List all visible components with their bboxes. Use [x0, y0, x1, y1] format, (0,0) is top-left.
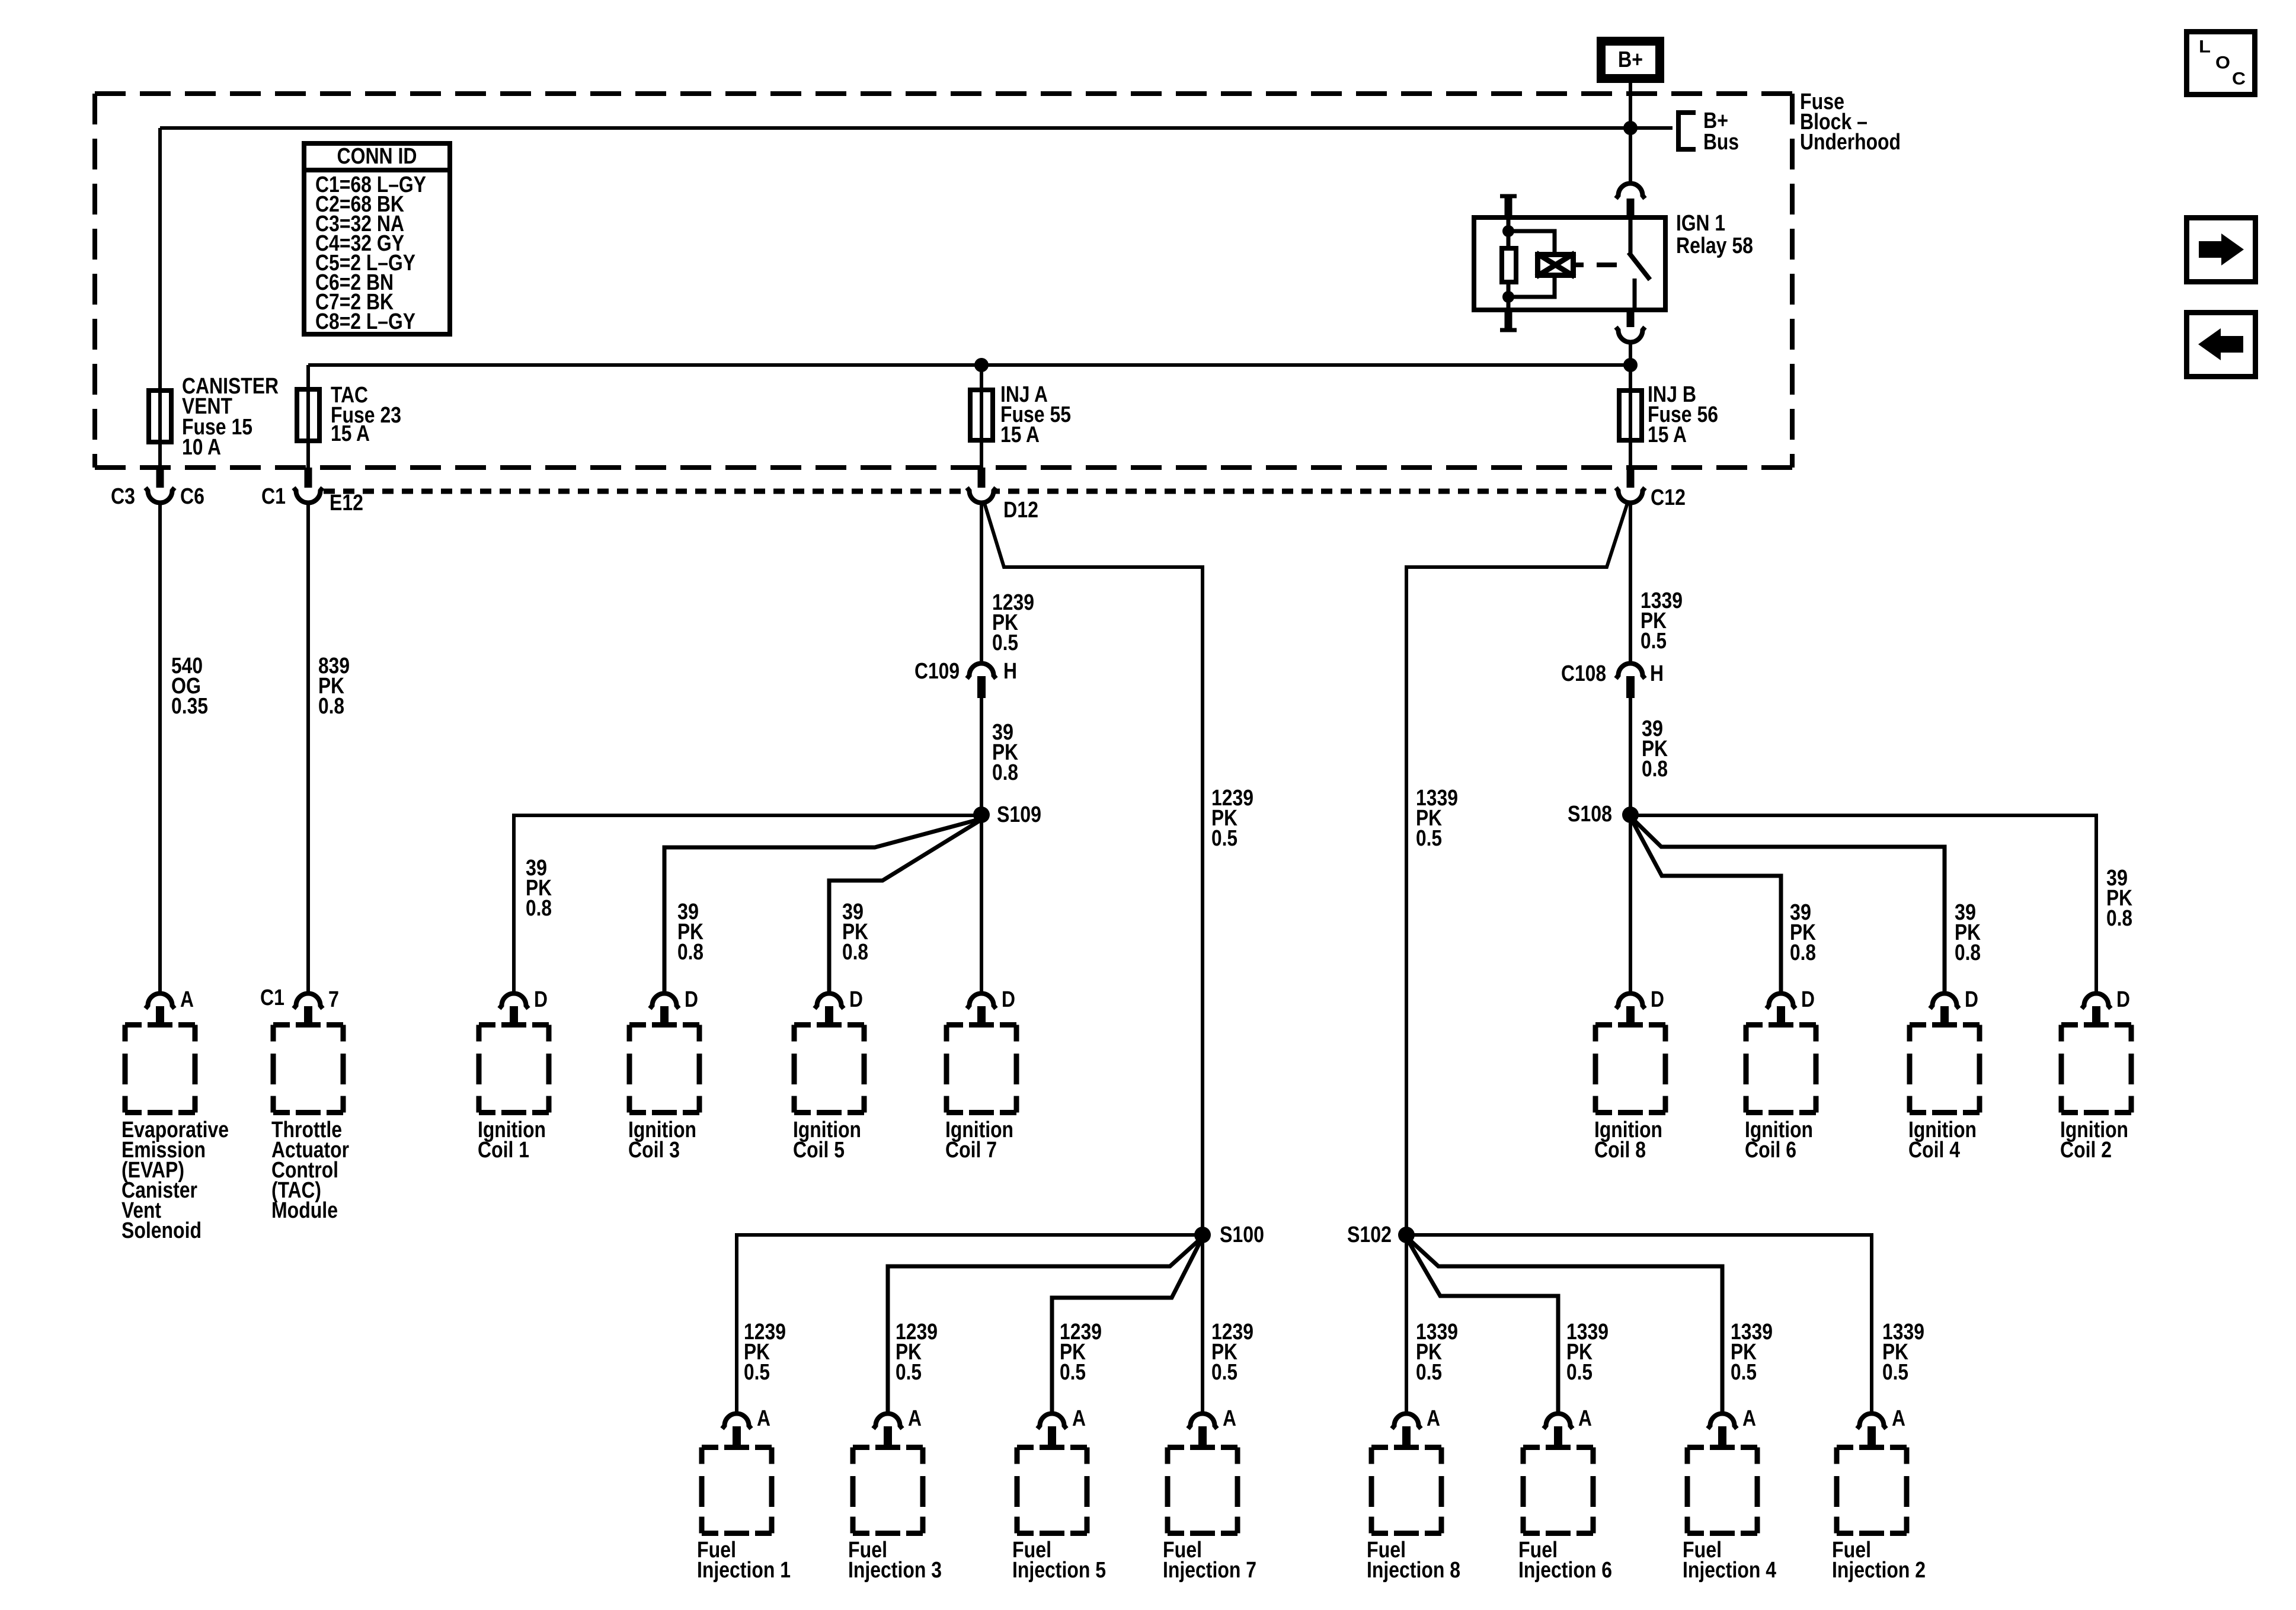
svg-text:Relay 58: Relay 58 — [1676, 233, 1753, 258]
svg-text:Injection 4: Injection 4 — [1683, 1558, 1776, 1583]
connector fuel injector 6 pin A — [1544, 1414, 1573, 1429]
node relay coil bottom junction — [1502, 291, 1514, 303]
svg-text:15 A: 15 A — [1000, 422, 1040, 447]
connector fuel injector 1 pin A — [722, 1414, 752, 1429]
svg-text:0.8: 0.8 — [1955, 940, 1981, 965]
svg-text:15 A: 15 A — [1648, 422, 1687, 447]
svg-text:A: A — [1072, 1406, 1086, 1431]
connector C12 arc — [1616, 488, 1645, 503]
connector ignition coil 3 pin D — [650, 994, 679, 1009]
fuse F55 INJ A — [970, 390, 993, 440]
relay switch blade — [1629, 252, 1650, 280]
node B+ power feed box — [1601, 41, 1660, 79]
connector D12 arc — [967, 488, 996, 503]
component TAC module box — [273, 1025, 343, 1113]
connector fuel injector 7 pin A — [1188, 1414, 1217, 1429]
component Ignition Coil 6 box — [1746, 1025, 1816, 1113]
wire 1239 PK from D12 to C109 — [980, 503, 983, 663]
component Fuel Injection 8 box — [1371, 1448, 1441, 1534]
svg-text:0.8: 0.8 — [677, 940, 703, 965]
svg-text:D: D — [685, 987, 698, 1012]
fuse F56 INJ B — [1619, 391, 1642, 440]
relay pin 87 stub bottom — [1627, 312, 1635, 329]
svg-text:Injection 6: Injection 6 — [1518, 1558, 1612, 1583]
svg-text:D: D — [1965, 987, 1978, 1012]
CONN ID table — [302, 143, 452, 334]
relay box — [1474, 217, 1665, 310]
svg-text:D12: D12 — [1003, 498, 1038, 523]
connector fuel injector 5 pin A — [1038, 1414, 1067, 1429]
svg-text:15 A: 15 A — [331, 421, 370, 446]
fuse F15 CANISTER VENT — [149, 391, 171, 442]
svg-text:0.5: 0.5 — [1566, 1360, 1593, 1385]
relay U IGN 1 Relay 58 — [1474, 196, 1753, 330]
svg-text:0.8: 0.8 — [1790, 940, 1816, 965]
connector ignition coil 4 pin D — [1930, 994, 1959, 1009]
svg-text:A: A — [1427, 1406, 1440, 1431]
svg-text:D: D — [1002, 987, 1015, 1012]
wire 1239 PK branch D12 to S100 — [984, 501, 1203, 1411]
svg-text:Injection 3: Injection 3 — [848, 1558, 942, 1583]
wire B+ bus horizontal — [160, 126, 1673, 130]
node splice S109 — [973, 806, 990, 823]
svg-text:0.8: 0.8 — [1642, 757, 1668, 782]
svg-text:C12: C12 — [1651, 485, 1686, 510]
svg-text:D: D — [534, 987, 548, 1012]
svg-text:A: A — [1578, 1406, 1592, 1431]
component Ignition Coil 4 box — [1910, 1025, 1980, 1113]
connector fuel injector 8 pin A — [1392, 1414, 1421, 1429]
svg-text:0.8: 0.8 — [318, 694, 344, 719]
relay linkage dashes — [1576, 263, 1584, 267]
component Ignition Coil 8 box — [1595, 1025, 1665, 1113]
svg-text:H: H — [1650, 661, 1664, 686]
wire INJ A fuse feed vertical — [980, 365, 983, 468]
svg-text:0.5: 0.5 — [1416, 826, 1442, 851]
svg-text:S108: S108 — [1568, 802, 1612, 827]
connector ignition coil 1 pin D — [500, 994, 529, 1009]
wire S100 to fuel injection 3 — [888, 1240, 1200, 1411]
svg-text:D: D — [1651, 987, 1664, 1012]
label 1239 PK fuel injection 7 — [1211, 1320, 1253, 1385]
component Fuel Injection 5 box — [1017, 1448, 1087, 1534]
svg-text:C1: C1 — [261, 484, 286, 509]
svg-text:S100: S100 — [1220, 1222, 1264, 1247]
relay switch lower contact — [1633, 279, 1637, 312]
connector C6 stub — [156, 468, 164, 489]
connector ignition coil 8 pin D — [1616, 994, 1645, 1009]
wire 39 PK from C108 to S108 and coil 8 — [1629, 698, 1632, 992]
connector TAC module C1 pin 7 — [294, 994, 323, 1009]
svg-text:D: D — [2116, 987, 2130, 1012]
connector fuel injector 3 pin A — [874, 1414, 903, 1429]
svg-text:Coil 2: Coil 2 — [2060, 1138, 2112, 1163]
component Fuel Injection 4 box — [1687, 1448, 1757, 1534]
svg-text:Injection 1: Injection 1 — [697, 1558, 791, 1583]
wire canister vent feed vertical — [158, 128, 162, 468]
connector ignition coil 6 pin D — [1767, 994, 1796, 1009]
node splice S102 — [1398, 1227, 1415, 1243]
relay coil pin 86 bottom tick — [1505, 312, 1512, 330]
relay switch upper contact — [1629, 215, 1633, 254]
node relay coil top junction — [1502, 225, 1514, 237]
label 1339 PK fuel injection 8 — [1416, 1320, 1458, 1385]
component Ignition Coil 1 box — [479, 1025, 549, 1113]
svg-text:A: A — [180, 987, 194, 1012]
wire 540 OG EVAP solenoid — [158, 503, 162, 992]
relay coil pin 85 top tick — [1500, 194, 1517, 199]
connector EVAP pin A — [146, 994, 175, 1009]
svg-text:Coil 7: Coil 7 — [945, 1138, 997, 1163]
svg-text:7: 7 — [328, 987, 339, 1012]
arrow box right — [2187, 218, 2256, 282]
component Ignition Coil 3 box — [629, 1025, 699, 1113]
svg-text:Module: Module — [271, 1198, 338, 1223]
svg-text:CONN ID: CONN ID — [337, 144, 417, 169]
connector C108 pin H — [1616, 663, 1645, 678]
wire B+ vertical feed — [1629, 83, 1632, 181]
component Fuel Injection 3 box — [853, 1448, 923, 1534]
connector ignition coil 5 pin D — [815, 994, 844, 1009]
svg-text:0.8: 0.8 — [992, 760, 1018, 785]
svg-text:10 A: 10 A — [182, 435, 221, 460]
fuse block underhood dashed border — [95, 94, 1792, 468]
wire S108 to ignition coil 2 — [1630, 815, 2096, 992]
wire S102 to fuel injection 4 — [1409, 1240, 1722, 1411]
svg-text:Underhood: Underhood — [1800, 130, 1901, 155]
relay pin 30 stub top — [1627, 199, 1635, 215]
wire relay coil branch — [1508, 231, 1555, 297]
node junction B+ bus — [1623, 121, 1638, 135]
connector arc below relay — [1616, 327, 1645, 343]
connector C1/E12 arc — [294, 488, 323, 503]
connector fuel injector 4 pin A — [1708, 1414, 1737, 1429]
svg-text:A: A — [908, 1406, 922, 1431]
svg-text:0.8: 0.8 — [2106, 906, 2132, 931]
wire 1339 PK branch C12 to S102 — [1406, 501, 1628, 1411]
svg-text:0.5: 0.5 — [1211, 826, 1237, 851]
wire ECM connector dotted line E12 row — [324, 489, 1614, 494]
node splice S100 — [1194, 1227, 1211, 1243]
wire INJ B fuse feed vertical — [1629, 365, 1632, 468]
svg-text:0.35: 0.35 — [171, 694, 208, 719]
svg-text:A: A — [1892, 1406, 1905, 1431]
wire S102 to fuel injection 6 — [1408, 1241, 1558, 1411]
LOC reference box — [2187, 32, 2255, 95]
component EVAP canister vent solenoid box — [125, 1025, 195, 1113]
svg-text:D: D — [1801, 987, 1815, 1012]
svg-text:H: H — [1003, 659, 1017, 684]
svg-text:Coil 4: Coil 4 — [1908, 1138, 1960, 1163]
svg-text:S102: S102 — [1347, 1222, 1392, 1247]
fuse F23 TAC — [297, 389, 319, 441]
wire 839 PK TAC module — [306, 503, 310, 992]
arrow box left — [2187, 313, 2256, 377]
relay coil winding symbol — [1538, 255, 1574, 276]
svg-text:Bus: Bus — [1703, 130, 1739, 155]
svg-text:Coil 5: Coil 5 — [793, 1138, 845, 1163]
svg-text:C108: C108 — [1561, 661, 1606, 686]
component Ignition Coil 5 box — [794, 1025, 864, 1113]
svg-text:Injection 7: Injection 7 — [1163, 1558, 1256, 1583]
wire S102 to fuel injection 2 — [1406, 1235, 1872, 1411]
connector arc above relay — [1616, 184, 1645, 199]
wire S108 to ignition coil 6 — [1632, 821, 1781, 992]
wire S100 to fuel injection 1 — [737, 1235, 1203, 1411]
connector C1 stub — [305, 468, 312, 489]
connector ignition coil 7 pin D — [967, 994, 996, 1009]
svg-text:0.5: 0.5 — [992, 630, 1018, 655]
component Ignition Coil 2 box — [2061, 1025, 2131, 1113]
relay output wire to bus — [1629, 344, 1632, 388]
svg-text:A: A — [1223, 1406, 1236, 1431]
wire S109 to ignition coil 1 — [514, 815, 981, 992]
connector D12 stub — [978, 468, 986, 489]
svg-text:Coil 1: Coil 1 — [478, 1138, 529, 1163]
svg-text:0.5: 0.5 — [896, 1360, 922, 1385]
relay coil circuit wires — [1507, 215, 1511, 246]
wire S100 to fuel injection 5 — [1052, 1241, 1201, 1411]
svg-text:C3: C3 — [111, 484, 135, 509]
svg-text:0.5: 0.5 — [1060, 1360, 1086, 1385]
node junction INJ B tap — [1623, 358, 1638, 372]
svg-text:C: C — [2232, 69, 2246, 89]
svg-text:A: A — [757, 1406, 770, 1431]
svg-text:C6: C6 — [180, 484, 204, 509]
svg-text:0.5: 0.5 — [1416, 1360, 1442, 1385]
node splice S108 — [1622, 806, 1639, 823]
connector fuel injector 2 pin A — [1857, 1413, 1886, 1429]
node B+ Bus bracket terminal — [1678, 113, 1696, 149]
wire S109 to ignition coil 5 — [829, 821, 980, 992]
svg-text:0.5: 0.5 — [1641, 629, 1667, 654]
wire ignition bus horizontal — [308, 363, 1630, 367]
connector C109 pin H — [967, 663, 996, 678]
component Fuel Injection 1 box — [702, 1448, 772, 1534]
svg-text:D: D — [849, 987, 863, 1012]
connector C3/C6 arc — [146, 488, 175, 503]
svg-text:IGN 1: IGN 1 — [1676, 211, 1725, 236]
wire 1339 PK from C12 to C108 — [1629, 503, 1632, 663]
component Fuel Injection 6 box — [1523, 1448, 1593, 1534]
svg-text:A: A — [1742, 1406, 1756, 1431]
svg-text:0.8: 0.8 — [842, 940, 868, 965]
svg-text:Coil 8: Coil 8 — [1594, 1138, 1646, 1163]
svg-text:0.5: 0.5 — [1882, 1360, 1908, 1385]
connector C12 stub — [1627, 468, 1635, 489]
svg-text:E12: E12 — [330, 491, 363, 516]
svg-text:Coil 3: Coil 3 — [628, 1138, 680, 1163]
connector ignition coil 2 pin D — [2082, 994, 2111, 1009]
svg-text:O: O — [2215, 53, 2230, 73]
wire 39 PK from C109 to S109 and coil 7 — [980, 698, 983, 992]
component Fuel Injection 2 box — [1837, 1448, 1907, 1534]
wire TAC fuse feed vertical — [306, 365, 310, 468]
wire S108 to ignition coil 4 — [1633, 820, 1945, 992]
svg-text:L: L — [2199, 37, 2211, 57]
svg-text:Injection 8: Injection 8 — [1367, 1558, 1460, 1583]
svg-text:Coil 6: Coil 6 — [1745, 1138, 1796, 1163]
svg-text:Solenoid: Solenoid — [121, 1218, 202, 1243]
svg-text:C109: C109 — [914, 659, 960, 684]
svg-text:0.5: 0.5 — [744, 1360, 770, 1385]
svg-text:Injection 5: Injection 5 — [1012, 1558, 1106, 1583]
component Ignition Coil 7 box — [946, 1025, 1016, 1113]
svg-text:0.5: 0.5 — [1211, 1360, 1237, 1385]
label Fuse Block - Underhood — [1800, 89, 1901, 155]
label IGN 1 Relay 58 — [1676, 211, 1753, 258]
resistor inside relay — [1502, 248, 1516, 282]
svg-text:B+: B+ — [1618, 47, 1643, 72]
svg-text:0.5: 0.5 — [1731, 1360, 1757, 1385]
component Fuel Injection 7 box — [1168, 1448, 1237, 1534]
svg-text:S109: S109 — [997, 802, 1041, 827]
node junction INJ A tap — [974, 358, 989, 372]
svg-text:C1: C1 — [260, 985, 284, 1010]
svg-text:C8=2 L–GY: C8=2 L–GY — [315, 309, 415, 334]
wire S109 to ignition coil 3 — [664, 820, 978, 992]
svg-text:Injection 2: Injection 2 — [1832, 1558, 1926, 1583]
svg-text:0.8: 0.8 — [526, 896, 552, 921]
